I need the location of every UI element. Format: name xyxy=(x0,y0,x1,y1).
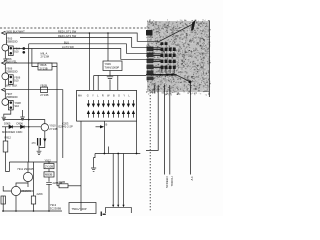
svg-text:2Y10B: 2Y10B xyxy=(45,164,53,168)
svg-text:MODIFIED CIRC: MODIFIED CIRC xyxy=(2,130,23,134)
svg-text:473: 473 xyxy=(32,142,37,145)
svg-text:BLK/YEL: BLK/YEL xyxy=(6,60,17,64)
svg-text:Y911 2SC945: Y911 2SC945 xyxy=(17,167,34,171)
svg-text:W05 BLK/WHT: W05 BLK/WHT xyxy=(7,29,26,33)
svg-text:SCREEN: SCREEN xyxy=(165,177,169,189)
svg-text:2Y13B: 2Y13B xyxy=(49,127,57,131)
svg-text:BLU: BLU xyxy=(64,40,69,44)
svg-text:2SB820D: 2SB820D xyxy=(6,69,18,73)
svg-text:E2841-2-2P: E2841-2-2P xyxy=(59,125,74,129)
svg-text:910: 910 xyxy=(14,79,19,83)
svg-text:T500+*100P: T500+*100P xyxy=(72,207,87,211)
svg-text:R912: R912 xyxy=(5,136,12,140)
svg-text:Y912: Y912 xyxy=(45,158,52,162)
svg-text:LGT3 SW: LGT3 SW xyxy=(62,45,74,49)
svg-text:YB1B: YB1B xyxy=(40,84,47,88)
svg-text:910: 910 xyxy=(14,50,19,54)
svg-text:2Y13B: 2Y13B xyxy=(40,66,48,70)
svg-text:D906: D906 xyxy=(17,122,24,126)
svg-text:220K: 220K xyxy=(37,192,43,196)
svg-text:2Y13B: 2Y13B xyxy=(40,93,48,97)
svg-text:Y90B: Y90B xyxy=(59,180,66,184)
svg-text:Y909: Y909 xyxy=(105,62,112,66)
svg-text:2Y13M: 2Y13M xyxy=(41,55,50,59)
svg-text:MB0B: MB0B xyxy=(45,173,53,177)
svg-text:D905: D905 xyxy=(4,122,11,126)
svg-text:A 4: A 4 xyxy=(190,176,194,180)
svg-text:TWN/1000P: TWN/1000P xyxy=(105,66,120,70)
svg-text:2SB820D: 2SB820D xyxy=(6,95,18,99)
svg-text:2SB820D: 2SB820D xyxy=(6,40,18,44)
svg-text:910: 910 xyxy=(15,104,20,108)
svg-text:RED LGT1 SW: RED LGT1 SW xyxy=(58,29,77,33)
svg-text:RED LGT2 SW: RED LGT2 SW xyxy=(58,34,77,38)
svg-text:B: B xyxy=(106,122,108,126)
svg-text:W07 BLK: W07 BLK xyxy=(6,84,18,88)
svg-text:G Y L R W B G Y L: G Y L R W B G Y L xyxy=(87,95,131,98)
svg-text:MA: MA xyxy=(78,95,82,98)
svg-text:2SC945: 2SC945 xyxy=(21,189,31,193)
svg-text:3C2309B: 3C2309B xyxy=(50,207,61,211)
svg-text:TORCH: TORCH xyxy=(170,177,174,187)
